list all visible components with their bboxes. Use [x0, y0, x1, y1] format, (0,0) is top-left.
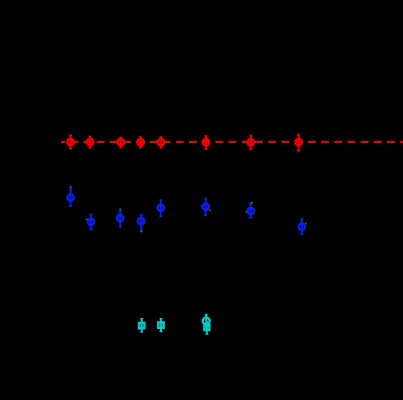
green hidden series fragments: [70, 186, 307, 232]
cyan open-circle marker: [203, 318, 210, 325]
cyan error bar caps: [140, 315, 208, 335]
cyan error bars: [142, 315, 207, 335]
blue error bar caps: [69, 188, 303, 234]
blue error bars: [71, 188, 302, 234]
red error bar caps: [69, 135, 300, 151]
red open-circle markers: [67, 139, 301, 146]
cyan open-square marker 3: [204, 325, 209, 330]
blue open-circle markers: [68, 195, 305, 230]
cyan open-square marker 1: [139, 318, 210, 330]
red error bars: [71, 135, 299, 151]
cyan open-square marker 2: [158, 322, 163, 327]
red dashed reference line: [61, 141, 403, 143]
